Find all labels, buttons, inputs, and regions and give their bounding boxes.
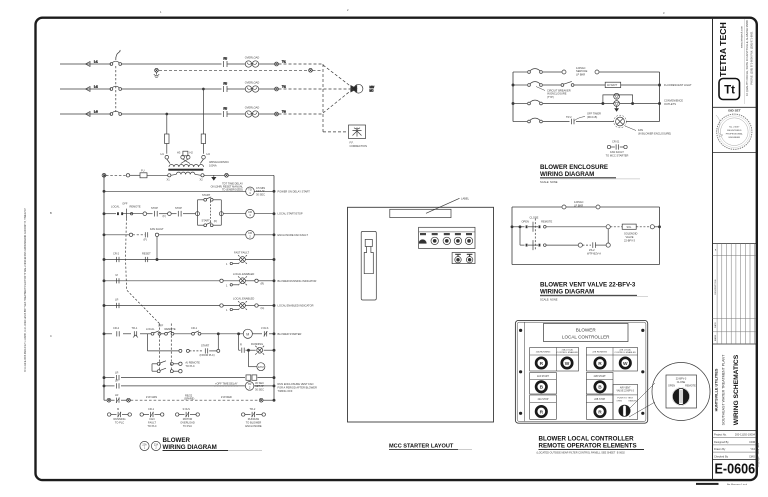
rung 4 wire [103, 258, 275, 260]
svg-text:WIRING DIAGRAM: WIRING DIAGRAM [540, 289, 594, 296]
rung1 note text [211, 182, 244, 192]
contact CR-1 rung7 [191, 326, 201, 335]
transformer T1 windings [168, 160, 229, 175]
svg-text:TO PLC: TO PLC [115, 420, 124, 424]
PLC contact group TR-2 [242, 407, 266, 428]
rung 1 wire [103, 190, 275, 192]
transformer T1 primary terminals H1 H3 H2 H4 [161, 151, 211, 164]
svg-text:FAN: FAN [149, 417, 154, 421]
svg-text:# W RED: # W RED [221, 395, 232, 399]
svg-text:CR 01: CR 01 [612, 140, 620, 144]
svg-text:ENCLOSURE: ENCLOSURE [245, 424, 261, 428]
svg-text:B: B [50, 211, 52, 215]
label: local start/stop [278, 212, 303, 216]
svg-text:LR: LR [115, 370, 118, 374]
label: blower starter [278, 332, 302, 336]
project identity block [715, 354, 740, 425]
panel mounting screws [519, 329, 644, 415]
ground conductor (dashed) [159, 69, 308, 71]
svg-text:22B STOP: 22B STOP [594, 399, 605, 401]
title: blower enclosure wiring diagram [540, 164, 640, 184]
selector switch LOCAL/OFF/REMOTE [111, 202, 141, 219]
svg-text:PUSH TO TEST: PUSH TO TEST [617, 397, 633, 399]
svg-text:OFF: OFF [158, 323, 164, 327]
terminal node rung10 [127, 398, 131, 402]
label: blower running indicator [278, 279, 317, 283]
selector LOCAL contact rung7 [146, 323, 164, 335]
svg-text:ENCLOSURE FAN FAULT: ENCLOSURE FAN FAULT [278, 233, 309, 237]
vent valve bottom bus [512, 264, 660, 266]
coil TD1 [246, 186, 266, 196]
svg-text:OUTLETS: OUTLETS [664, 102, 676, 106]
svg-text:FAN FAULT: FAN FAULT [610, 150, 624, 154]
ladder right rail [273, 176, 275, 401]
svg-text:LOCAL ENABLED: LOCAL ENABLED [233, 272, 254, 276]
svg-text:R: R [540, 361, 544, 367]
rung 6 wire [103, 304, 275, 306]
pilot light 22B local W [620, 358, 630, 368]
ladder left rail [103, 176, 105, 401]
enclosure service row [513, 71, 660, 73]
stop pushbutton 2 [175, 206, 182, 216]
solenoid SOL [610, 224, 659, 242]
svg-text:CLOSE: CLOSE [530, 216, 539, 220]
svg-text:LOCAL CONTROLLER: LOCAL CONTROLLER [562, 335, 610, 340]
svg-text:TR 2: TR 2 [566, 115, 572, 119]
overload OL3 [245, 106, 275, 118]
svg-text:+OFF TIME DELAY: +OFF TIME DELAY [215, 382, 238, 386]
svg-text:TO PLC: TO PLC [185, 364, 194, 368]
svg-text:R: R [598, 409, 602, 415]
svg-text:R: R [240, 343, 242, 347]
disconnect switch pole 1 [110, 50, 222, 65]
svg-text:O:\11192\E-0606.DWG P-ET1-116: O:\11192\E-0606.DWG P-ET1-116286, 1110-1… [24, 207, 27, 371]
svg-text:(MCC-B): (MCC-B) [587, 115, 597, 119]
svg-text:TR-2: TR-2 [250, 407, 256, 411]
svg-text:LOCAL: LOCAL [111, 205, 120, 209]
vent valve top bus [512, 200, 660, 209]
svg-text:3 OLS: 3 OLS [261, 326, 269, 330]
light breaker B2 [528, 82, 571, 99]
pushbutton 22A stop R [536, 406, 546, 416]
limit switch branch [578, 242, 610, 255]
svg-text:OPEN: OPEN [668, 385, 675, 388]
svg-text:30 SEC: 30 SEC [255, 387, 264, 391]
svg-text:SCALE: NONE: SCALE: NONE [540, 297, 558, 301]
Tetra Tech logo block [718, 19, 754, 104]
svg-text:MOTOR: MOTOR [183, 417, 193, 421]
svg-text:LOCAL: LOCAL [146, 327, 155, 331]
svg-text:22A LOCAL: 22A LOCAL [562, 348, 574, 351]
wire rung3 to rung4 [156, 237, 158, 260]
svg-text:480VAC/240VDC: 480VAC/240VDC [209, 160, 229, 164]
fuse F1 [224, 57, 246, 68]
fan fault contact to MCC [606, 140, 629, 158]
svg-text:10 QUALITY CIRCLE, SUITE 10 H: 10 QUALITY CIRCLE, SUITE 10 HUNTSVILLE, … [745, 20, 749, 96]
light circuit row [513, 84, 660, 86]
selector REMOTE contact rung7 [165, 327, 176, 335]
outlets breaker B3 [528, 100, 543, 105]
svg-text:START: START [201, 344, 210, 348]
svg-text:LR: LR [115, 298, 118, 302]
svg-text:SCALE: NONE: SCALE: NONE [540, 180, 558, 184]
svg-text:M: M [117, 407, 119, 411]
svg-text:DATE: DATE [714, 322, 717, 328]
BID SET + seal [716, 109, 752, 150]
svg-text:LABEL: LABEL [461, 196, 470, 200]
title block frame [713, 18, 757, 480]
svg-text:L-1: L-1 [94, 60, 98, 64]
svg-text:(F): (F) [163, 214, 166, 218]
left row3 cell box [530, 395, 557, 419]
svg-text:L-2: L-2 [94, 85, 98, 89]
svg-text:OVERLOAD: OVERLOAD [245, 81, 260, 85]
svg-text:TO PLC: TO PLC [147, 424, 156, 428]
svg-text:TR-1: TR-1 [132, 326, 138, 330]
project info table [713, 433, 757, 459]
svg-text:H4: H4 [207, 152, 211, 156]
svg-text:200-11192-10004: 200-11192-10004 [735, 433, 756, 437]
label: local enabled indicator [278, 304, 314, 308]
scale bar [696, 483, 748, 486]
svg-text:STOP: STOP [175, 206, 182, 210]
svg-text:ETM: ETM [258, 365, 263, 369]
svg-text:TO MCC STARTER: TO MCC STARTER [606, 153, 629, 157]
svg-text:LR: LR [115, 393, 118, 397]
svg-text:STOP: STOP [151, 206, 158, 210]
title: MCC starter layout [389, 444, 472, 450]
svg-text:Copyright: Tetra Tech: Copyright: Tetra Tech [756, 442, 760, 467]
svg-text:REMOTE OPERATOR ELEMENTS: REMOTE OPERATOR ELEMENTS [539, 443, 637, 450]
dashed feeder [106, 174, 126, 176]
svg-text:BLOWER VENT VALVE 22-BFV-3: BLOWER VENT VALVE 22-BFV-3 [540, 282, 636, 289]
duplex outlet symbol [603, 93, 633, 111]
balloon legend plate [666, 375, 697, 408]
overload OL2 [245, 81, 275, 93]
svg-text:M: M [246, 332, 249, 336]
sheet number E-0606 [714, 442, 760, 476]
wire T3 to motor (dashed) [279, 91, 352, 115]
left group row1 cell box [530, 348, 579, 372]
40 watt fixture [605, 82, 621, 87]
terminal circle [126, 174, 129, 177]
svg-text:FAN FAULT: FAN FAULT [150, 227, 164, 231]
revision table [713, 244, 757, 345]
rung 9 wire [103, 385, 275, 387]
overload OL1 [245, 56, 275, 68]
start interlock dashed [209, 201, 211, 224]
svg-text:Drawn By: Drawn By [714, 447, 726, 451]
node on control bus left [102, 173, 106, 177]
pushbutton 22B start B [595, 382, 605, 392]
dashed tie bus [322, 64, 324, 132]
right row3 cell box [586, 395, 613, 419]
MCC pilot device row [419, 227, 475, 248]
svg-text:TETRA TECH: TETRA TECH [718, 22, 728, 77]
local enabled lamp rung5 [220, 272, 264, 288]
controller panel enclosure [515, 320, 647, 423]
lower selector contact [520, 227, 578, 250]
svg-text:CONVENIENCE: CONVENIENCE [664, 99, 683, 103]
svg-text:# W GRN: # W GRN [146, 395, 157, 399]
dashed lead rung3 [133, 234, 145, 236]
svg-text:WIRING DIAGRAM: WIRING DIAGRAM [163, 444, 217, 451]
PLC contact group 3 OLS [176, 407, 200, 428]
svg-text:START: START [202, 219, 211, 223]
svg-text:C: C [50, 334, 52, 338]
svg-text:CR-2: CR-2 [113, 252, 120, 256]
svg-text:SOUTHEAST WATER TREATMENT PLAN: SOUTHEAST WATER TREATMENT PLANT [722, 354, 726, 425]
svg-text:22B START: 22B START [594, 375, 607, 378]
phase L3 line [60, 110, 111, 117]
MCC panel enclosure [348, 207, 494, 422]
svg-text:FAN: FAN [638, 128, 643, 132]
svg-text:40 WATT: 40 WATT [607, 84, 618, 87]
svg-text:FLUORESCENT LIGHT: FLUORESCENT LIGHT [664, 83, 692, 87]
fan fault contact CR-01 [144, 227, 165, 242]
control fuse right [201, 134, 205, 154]
svg-text:H1: H1 [161, 152, 165, 156]
rung10 wire labels [146, 393, 232, 400]
svg-text:REMOTE: REMOTE [685, 385, 696, 388]
svg-text:22B RUNNING: 22B RUNNING [592, 351, 607, 353]
elapsed time meter ETM [247, 349, 265, 371]
title: blower wiring diagram [163, 437, 263, 451]
svg-text:REGISTERED: REGISTERED [727, 130, 742, 132]
svg-text:LP BKR: LP BKR [576, 72, 585, 76]
coil TD2 [246, 231, 255, 240]
pushbutton 22B stop R [595, 406, 605, 416]
svg-text:M: M [116, 273, 118, 277]
svg-text:FAST FAULT: FAST FAULT [234, 251, 249, 255]
label: power on delay start [278, 189, 311, 193]
svg-text:REMOTE: REMOTE [130, 205, 141, 209]
overload contacts 3 OLS [261, 326, 269, 336]
svg-text:CDM: CDM [749, 440, 755, 444]
svg-text:AIR VENT: AIR VENT [620, 387, 631, 390]
svg-text:CR-2: CR-2 [113, 326, 120, 330]
pilot light 22A running R [536, 358, 546, 368]
vent valve left rail [511, 207, 513, 265]
svg-text:(F): (F) [144, 238, 147, 242]
contact TR-1 rung7 [132, 326, 139, 338]
enclosure left rail [512, 72, 514, 122]
svg-text:Tt: Tt [724, 85, 735, 97]
wire tie bus to FF correction (dashed) [323, 131, 347, 133]
svg-text:WTF-BZV-A: WTF-BZV-A [587, 251, 601, 255]
svg-text:No. 21637: No. 21637 [729, 127, 740, 129]
svg-text:VALVE 22-BFV-3: VALVE 22-BFV-3 [616, 390, 634, 393]
rung 2 wire [103, 213, 275, 215]
off time delay note [214, 382, 238, 386]
svg-text:PROFESSIONAL: PROFESSIONAL [726, 133, 744, 136]
svg-text:www.tetratech.com: www.tetratech.com [740, 26, 744, 48]
ground node at motor [309, 68, 313, 72]
branch tie wire [606, 225, 610, 243]
MCC nameplate label [390, 196, 470, 217]
svg-text:BID SET: BID SET [728, 109, 740, 113]
reset contact [142, 252, 151, 263]
rung 7 wire [103, 333, 275, 335]
svg-text:X1: X1 [167, 177, 171, 181]
wire T2 to motor (dashed) [279, 88, 352, 90]
disconnect switch pole 3 [110, 111, 222, 115]
selector linkage rung7 dashed [159, 324, 171, 372]
label: fluorescent light [664, 83, 692, 87]
svg-text:FU: FU [224, 57, 228, 61]
svg-text:FU: FU [224, 107, 228, 111]
service breaker B1 [528, 69, 543, 74]
svg-text:FAULT: FAULT [148, 420, 156, 424]
svg-text:(IN BLOWER ENCLOSURE): (IN BLOWER ENCLOSURE) [638, 132, 671, 136]
phase L2 line [60, 85, 111, 92]
rung 5 wire [103, 280, 275, 282]
timer contact TR2 [566, 112, 601, 125]
MCC breaker handle [361, 231, 376, 300]
svg-text:B: B [598, 385, 602, 391]
svg-text:RUNNING: RUNNING [251, 342, 263, 346]
svg-text:BLOWER ENCLOSURE: BLOWER ENCLOSURE [540, 164, 608, 171]
detail balloon leader [629, 383, 655, 417]
svg-text:R: R [540, 409, 544, 415]
svg-text:L-3: L-3 [94, 110, 98, 114]
enclosure right rail [658, 72, 660, 122]
control bus top wire [104, 174, 274, 176]
node T1 [275, 60, 287, 66]
svg-text:RESET: RESET [142, 252, 151, 256]
aux blocks rung8 [246, 375, 257, 380]
terminal node rung10 left [107, 398, 111, 402]
svg-text:BLOWER STARTER: BLOWER STARTER [278, 332, 302, 336]
svg-text:DESCRIPTION: DESCRIPTION [715, 279, 717, 294]
svg-text:RUN ENCLOSURE VENT FAN: RUN ENCLOSURE VENT FAN [278, 382, 314, 386]
left row2 cell box [530, 373, 557, 395]
margin plot-stamp text left [24, 8, 665, 372]
svg-text:VALVE: VALVE [626, 235, 634, 239]
fan symbol [614, 115, 672, 135]
svg-text:Designed By: Designed By [714, 440, 729, 444]
svg-text:LOCAL ENABLED: LOCAL ENABLED [233, 297, 254, 301]
control fuse left [165, 134, 169, 154]
svg-text:F.F.: F.F. [350, 141, 354, 145]
terminal rung2 a [143, 212, 147, 216]
svg-text:W: W [565, 361, 570, 367]
svg-text:LP BKR: LP BKR [574, 203, 583, 207]
svg-text:CORRECTION: CORRECTION [350, 144, 368, 148]
svg-text:A) REMOTE: A) REMOTE [185, 360, 200, 364]
svg-text:3 OLS: 3 OLS [183, 407, 191, 411]
svg-text:PHONE: (256) 971-6000 FAX: (2: PHONE: (256) 971-6000 FAX: (256) 971-600… [750, 31, 754, 85]
svg-text:OPEN: OPEN [522, 219, 529, 223]
PLC contact group M [108, 407, 132, 424]
right row2 cell box [586, 373, 613, 395]
svg-text:OFF TIMER: OFF TIMER [587, 112, 601, 116]
svg-text:H3: H3 [177, 151, 181, 155]
fast fault lamp [226, 251, 249, 267]
svg-text:TO BLOWER: TO BLOWER [246, 420, 262, 424]
svg-text:Bar Measures 1 inch: Bar Measures 1 inch [727, 483, 748, 486]
svg-text:POWER ON DELAY START: POWER ON DELAY START [278, 189, 311, 193]
selector linkage vent valve [534, 219, 536, 251]
start pushbutton parallel branch [196, 193, 224, 227]
contact LR rung8 [115, 370, 119, 380]
node T2 [275, 85, 287, 91]
ground on control bus [211, 175, 216, 180]
svg-text:RUN/FAN: RUN/FAN [248, 417, 260, 421]
rung 8 wire [103, 377, 275, 379]
svg-text:22A RUNNING: 22A RUNNING [536, 350, 551, 353]
air vent valve cell box [613, 384, 638, 419]
svg-text:BLOWER LOCAL CONTROLLER: BLOWER LOCAL CONTROLLER [539, 436, 635, 443]
fuse F2 [224, 82, 246, 93]
svg-text:CONTROL ENABLED: CONTROL ENABLED [557, 351, 579, 354]
svg-text:B: B [540, 385, 544, 391]
transformer tap from L2 [202, 88, 204, 134]
svg-text:LOCAL START/STOP: LOCAL START/STOP [278, 212, 303, 216]
svg-text:RUNNING: RUNNING [113, 417, 125, 421]
svg-text:HUNTSVILLE UTILITIES: HUNTSVILLE UTILITIES [715, 368, 719, 411]
svg-text:START: START [202, 193, 211, 197]
wire ground to tie bus (dashed) [313, 69, 323, 71]
phase L1 line [60, 60, 111, 67]
svg-text:MCC STARTER LAYOUT: MCC STARTER LAYOUT [389, 444, 454, 450]
svg-text:(TYP): (TYP) [547, 95, 554, 99]
contact CR rung6 [115, 298, 119, 309]
local enabled lamp rung6 [220, 297, 265, 313]
svg-text:CONTROL ENABLED: CONTROL ENABLED [614, 351, 636, 354]
svg-text:MC: MC [370, 88, 374, 92]
remote start sub-branch [148, 333, 220, 358]
svg-text:T-1: T-1 [282, 60, 286, 64]
MCC pushbutton pair [452, 253, 475, 264]
svg-text:TD (ENERGIZED): TD (ENERGIZED) [222, 188, 243, 192]
control fuse FU [140, 169, 147, 178]
svg-text:H2: H2 [190, 151, 194, 155]
contact CR-2 [113, 252, 120, 263]
svg-text:R: R [598, 361, 602, 367]
svg-text:LR: LR [115, 379, 118, 383]
wire T1 to motor (dashed) [279, 64, 352, 87]
stop pushbutton 1 [151, 206, 166, 218]
svg-text:BLOWER RUNNING INDICATOR: BLOWER RUNNING INDICATOR [278, 279, 317, 283]
fan breaker B4 [528, 118, 543, 123]
fuse F3 [224, 107, 246, 118]
selector linkage dashed [126, 219, 160, 324]
svg-text:E-0606: E-0606 [714, 459, 755, 476]
terminal circle rung3 [129, 233, 132, 236]
svg-text:22-BFV-3: 22-BFV-3 [624, 238, 636, 242]
svg-text:REMOTE: REMOTE [541, 219, 552, 223]
svg-text:T-3: T-3 [282, 110, 286, 114]
svg-text:WIRING SCHEMATICS: WIRING SCHEMATICS [733, 354, 740, 425]
svg-text:(F): (F) [214, 219, 217, 223]
svg-text:T-2: T-2 [282, 85, 286, 89]
svg-text:REMOTE: REMOTE [165, 327, 176, 331]
label: enclosure fan fault [278, 233, 309, 237]
coil TD2 rung9 [245, 381, 264, 391]
svg-text:(FROM PLC): (FROM PLC) [200, 353, 215, 357]
light switch [561, 81, 574, 86]
PLC contact group CR-1 [140, 407, 164, 428]
sheet ref bubbles [140, 441, 161, 450]
svg-text:(R): (R) [261, 281, 265, 285]
detail balloon [652, 363, 710, 421]
label: run enclosure vent fan [278, 382, 317, 393]
balloon selector knob [672, 388, 690, 406]
transformer tap from L3 [166, 113, 168, 134]
svg-text:FU: FU [224, 82, 228, 86]
svg-text:LOCAL ENABLED INDICATOR: LOCAL ENABLED INDICATOR [278, 304, 314, 308]
